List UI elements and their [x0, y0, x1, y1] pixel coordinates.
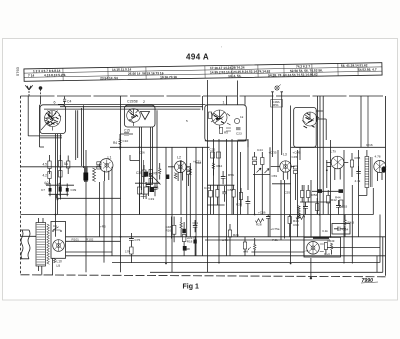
svg-text:R102: R102	[86, 237, 94, 241]
capacitor C56	[266, 215, 271, 237]
wire V1 bottom bus	[28, 136, 62, 138]
valve V2 electrodes	[127, 109, 141, 123]
svg-text:4.13.8.10 5.2.9.: 4.13.8.10 5.2.9.	[44, 73, 66, 77]
wire lamp pair	[271, 92, 283, 157]
svg-text:L7x: L7x	[331, 150, 337, 154]
band row 2 values	[28, 68, 377, 78]
svg-text:+R5: +R5	[100, 225, 106, 229]
svg-text:R52: R52	[312, 193, 318, 197]
svg-text:1k: 1k	[240, 115, 244, 119]
resistor R13	[189, 169, 191, 175]
svg-text:Fig 1: Fig 1	[183, 284, 199, 291]
valve V3 stage box	[205, 105, 247, 141]
valve V1 interior extra	[46, 111, 59, 131]
coil L2 unit	[168, 156, 190, 182]
resistor R40 cluster	[301, 185, 318, 203]
svg-text:R18: R18	[187, 239, 193, 243]
capacitor C51	[193, 220, 199, 256]
svg-text:C44: C44	[257, 148, 263, 152]
svg-text:’: ’	[221, 45, 222, 50]
svg-text:7 14: 7 14	[28, 74, 34, 78]
wire HT line right	[291, 146, 386, 148]
svg-text:C30: C30	[136, 171, 142, 175]
svg-text:4.2: 4.2	[43, 174, 48, 178]
resistor R38	[350, 153, 360, 177]
svg-text:C75: C75	[135, 238, 141, 242]
wire grid top bus from V1	[44, 104, 206, 109]
svg-text:C19: C19	[149, 197, 155, 201]
valve V1 stage box	[40, 105, 66, 134]
svg-text:+C75a: +C75a	[271, 227, 280, 231]
resistor R44	[344, 215, 355, 237]
svg-text:R28: R28	[256, 223, 262, 227]
valve V2 interior extra	[129, 110, 139, 127]
svg-text:4.78: 4.78	[375, 155, 381, 159]
coil L1 primary	[83, 150, 88, 182]
svg-text:4.7k: 4.7k	[355, 179, 361, 183]
node dots V1	[55, 199, 59, 216]
svg-text:C4: C4	[67, 100, 71, 104]
svg-text:R24: R24	[236, 203, 242, 207]
switch S1	[52, 224, 62, 232]
capacitor C50	[222, 186, 233, 202]
band row 3 values	[100, 73, 318, 81]
valve V4 stage box	[294, 108, 317, 148]
wire AVC line left	[40, 105, 45, 147]
svg-text:C64: C64	[343, 228, 349, 232]
coil L1 secondary	[93, 168, 96, 182]
capacitor C19 cluster	[135, 182, 160, 215]
label 2.2k mid	[186, 119, 278, 254]
svg-text:C23: C23	[236, 132, 242, 136]
capacitor C59	[356, 166, 361, 179]
frame left	[20, 96, 22, 275]
svg-text:R51: R51	[273, 103, 279, 107]
coil L3 unit	[253, 150, 301, 184]
wire T2 secondary leads	[359, 188, 373, 215]
svg-text:5: 5	[186, 119, 188, 123]
svg-text:C48: C48	[184, 247, 190, 251]
coil L8 hatch	[298, 206, 301, 219]
wire top right verticals	[367, 96, 369, 147]
wire right verticals	[331, 140, 359, 264]
svg-text:C/16: C/16	[366, 143, 373, 147]
svg-text:n48: n48	[243, 250, 248, 254]
svg-text:R+C: R+C	[324, 252, 330, 256]
core blob mid cluster	[144, 172, 148, 177]
svg-text:L/R49: L/R49	[327, 239, 335, 243]
svg-text:C10: C10	[123, 139, 129, 143]
antenna A	[25, 85, 32, 96]
earth terminal E	[39, 87, 42, 96]
valve V7 rectifier	[53, 240, 65, 252]
wire long verticals mid	[206, 80, 208, 272]
band tick dividers	[63, 63, 358, 81]
tuning indicator triangle	[141, 112, 150, 120]
svg-text:C40: C40	[196, 161, 202, 165]
svg-text:L1: L1	[108, 156, 112, 160]
wire V2 drops	[140, 127, 153, 215]
rectifier V7 box	[51, 222, 66, 259]
svg-text:L2: L2	[177, 156, 181, 160]
resistor R4	[113, 134, 128, 150]
valve V1 coil unit circle	[100, 159, 113, 172]
svg-text:54.28. 74 .64.14.54.74.52.14.9: 54.28. 74 .64.14.54.74.52.14.95.62	[268, 73, 318, 78]
capacitor C4	[63, 97, 71, 105]
capacitor C23 inside	[236, 128, 242, 136]
svg-text:C59: C59	[272, 174, 278, 178]
valve-holder table band	[24, 63, 382, 82]
trimmer C41	[253, 152, 257, 215]
svg-text:14 .4. 54.: 14 .4. 54.	[228, 74, 241, 78]
resistor R44b	[340, 200, 343, 207]
coil L2 winding hatch	[174, 173, 177, 179]
wire rectifier outputs	[21, 236, 121, 275]
wire links under V3	[207, 185, 234, 205]
capacitor C63	[336, 200, 347, 215]
wire top feed x202	[190, 96, 202, 256]
resistor R51A blob	[339, 189, 344, 193]
svg-text:6: 6	[54, 101, 56, 105]
svg-text:R5A: R5A	[228, 173, 235, 177]
svg-text:R38: R38	[355, 156, 361, 160]
wire V4 anode across	[300, 111, 323, 160]
label C48A R51	[272, 100, 281, 107]
label R46	[293, 219, 299, 227]
wire AF link	[251, 251, 304, 253]
wire right stage links	[316, 119, 326, 140]
svg-text:C7: C7	[41, 188, 45, 192]
svg-text:2: 2	[143, 100, 145, 104]
svg-text:C45: C45	[292, 155, 298, 159]
junction dots mid	[120, 146, 141, 148]
capacitor C7 pair	[41, 182, 121, 198]
coil L10	[54, 259, 63, 269]
svg-text:C15: C15	[124, 129, 130, 133]
mains lead	[21, 230, 31, 259]
wire pair to L1	[76, 110, 78, 160]
earth drop	[310, 258, 312, 279]
svg-text:4.5: 4.5	[43, 163, 48, 167]
svg-text:C63: C63	[342, 205, 348, 209]
resistor R50A blob	[318, 189, 323, 193]
resistor R5 inside	[209, 112, 229, 135]
valve V2 stage box	[125, 105, 156, 127]
svg-text:R4: R4	[113, 141, 117, 145]
svg-text:R44: R44	[335, 196, 341, 200]
wire antenna lead	[27, 96, 29, 136]
capacitor C28	[221, 171, 226, 184]
valve V3 interior extra	[211, 113, 231, 131]
valve V5 detector	[326, 150, 348, 181]
resistor R42	[327, 190, 337, 215]
resistor R46 zigzag	[296, 215, 305, 219]
choke core blobs	[166, 175, 169, 180]
wire V3 drops	[214, 139, 233, 263]
svg-text:R9: R9	[154, 172, 158, 176]
svg-text:C50: C50	[228, 188, 234, 192]
loudspeaker L71 box	[304, 237, 341, 257]
wire earth lead	[40, 96, 42, 105]
resistor R12	[212, 158, 222, 176]
svg-text:C60: C60	[293, 223, 299, 227]
svg-text:C26: C26	[139, 151, 145, 155]
valve V4 electrodes	[302, 112, 319, 128]
capacitor C5	[59, 155, 69, 184]
resistor R46	[288, 215, 291, 237]
resistor R3	[44, 156, 70, 186]
resistor R28	[243, 237, 246, 256]
svg-text:R26: R26	[233, 233, 239, 237]
resistor R22	[216, 185, 219, 205]
svg-text:R101: R101	[72, 237, 80, 241]
svg-text:L71: L71	[304, 249, 309, 253]
wire detector feed	[326, 160, 328, 188]
svg-text:C09: C09	[71, 188, 77, 192]
wire mid cluster	[130, 155, 140, 161]
volume pot R30	[248, 238, 256, 256]
svg-text:L10: L10	[57, 260, 63, 264]
valve V6 output	[374, 155, 386, 182]
resistor R10	[159, 163, 161, 180]
svg-text:C25: C25	[210, 148, 216, 152]
wire L1 grid	[21, 166, 102, 168]
resistor R24	[236, 188, 243, 207]
wire AVC bus mid	[110, 146, 210, 148]
wire pair to L1 b	[82, 105, 84, 168]
core arrow IF1	[150, 173, 161, 184]
frame right	[385, 96, 387, 276]
transformer T1 mains	[36, 218, 49, 275]
trimmer C6	[97, 162, 101, 169]
wire screen vertical	[156, 110, 158, 188]
wire IF3 secondary drops	[281, 180, 285, 240]
valve V1 triode-hexode	[45, 111, 62, 127]
resistor R16	[166, 217, 176, 243]
svg-text:54.52.56. 4.7: 54.52.56. 4.7	[358, 68, 377, 72]
svg-text:L3: L3	[283, 153, 287, 157]
resistor R23	[232, 185, 235, 215]
resistor R26	[228, 224, 239, 256]
svg-text:R12: R12	[217, 164, 223, 168]
capacitor C62 cluster	[303, 198, 319, 215]
wire V1 cathode drops	[56, 134, 61, 237]
valve V3 anode circle	[234, 118, 239, 123]
frame bottom	[21, 275, 386, 277]
svg-text:25.56 14 .56 19.16.73 16: 25.56 14 .56 19.16.73 16	[128, 71, 164, 76]
resistor R1	[43, 155, 52, 174]
dial lamp	[275, 85, 281, 91]
L1 pins	[105, 171, 109, 181]
svg-text:C15/58: C15/58	[127, 100, 138, 104]
wire V4 drops triple	[318, 96, 324, 237]
trimmer C36	[187, 167, 191, 186]
main schematic frame	[21, 96, 386, 277]
wire grid stopper	[312, 190, 342, 192]
frame top	[21, 95, 386, 97]
resistor R17k	[125, 247, 133, 263]
svg-text:C51: C51	[193, 221, 199, 225]
wire V3 top feeds	[227, 81, 246, 105]
band row 1 values	[33, 63, 368, 73]
wire bus verticals left	[85, 182, 87, 272]
svg-text:23.54 14 .54: 23.54 14 .54	[100, 76, 118, 80]
hum bus lines	[21, 214, 374, 216]
svg-text:R16: R16	[166, 229, 172, 233]
resistor R17 R18 column	[182, 222, 194, 256]
junction dots bus	[85, 214, 331, 265]
transformer T2 output primary	[365, 150, 372, 196]
svg-text:5763: 5763	[15, 66, 20, 76]
svg-text:494 A: 494 A	[186, 53, 209, 62]
capacitor C33	[146, 185, 159, 197]
resistor R2	[43, 172, 52, 185]
wire L2 verticals	[166, 147, 187, 272]
valve V3 electrodes	[212, 110, 227, 125]
scan page edge	[3, 39, 398, 301]
resistor R31	[257, 148, 264, 215]
capacitor C49 cluster under V3	[204, 185, 213, 215]
capacitor C64 box	[332, 224, 350, 235]
resistor R28h zigzag	[256, 219, 264, 223]
capacitor C30	[136, 165, 146, 182]
trimmer C47	[294, 166, 298, 200]
capacitor C75	[129, 233, 140, 247]
svg-text:17k: 17k	[125, 250, 130, 254]
resistor R19	[180, 217, 190, 251]
tuning arrow V1	[41, 121, 49, 130]
svg-text:3.1k: 3.1k	[322, 229, 328, 233]
svg-text:+C56: +C56	[258, 211, 266, 215]
wire L3 verticals	[270, 106, 298, 264]
wire right nested loop	[379, 215, 381, 263]
wire short segs	[205, 140, 247, 142]
svg-text:C4: C4	[53, 224, 57, 228]
resistor R9	[149, 170, 158, 184]
svg-text:1: 1	[223, 101, 225, 105]
svg-text:19.16.73 16: 19.16.73 16	[160, 75, 177, 79]
capacitor C53	[246, 196, 251, 215]
svg-text:C55: C55	[285, 191, 291, 195]
svg-text:C49: C49	[204, 186, 210, 190]
capacitor C15	[121, 129, 134, 136]
capacitor C25	[210, 148, 221, 159]
svg-text:L9: L9	[57, 264, 61, 268]
